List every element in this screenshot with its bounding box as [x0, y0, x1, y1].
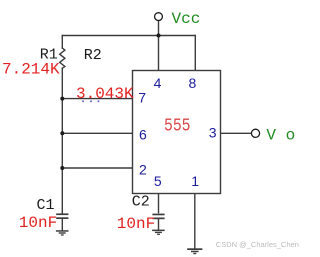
svg-text:4: 4 [154, 75, 162, 91]
ground main at pin 1 [187, 248, 202, 254]
svg-text:10nF: 10nF [19, 214, 57, 232]
svg-text:Vcc: Vcc [172, 10, 201, 28]
terminal Vo circle [251, 129, 259, 137]
wire left column above R1 [61, 36, 63, 49]
resistor R1 [60, 48, 65, 68]
svg-text:8: 8 [189, 75, 197, 91]
wire pin 3 output [221, 132, 252, 134]
svg-text:V o: V o [266, 127, 295, 145]
svg-text:CSDN @_Charles_Chen: CSDN @_Charles_Chen [216, 240, 299, 249]
svg-text:555: 555 [164, 116, 191, 136]
svg-text:6: 6 [139, 127, 147, 143]
wire Vcc stem [158, 21, 160, 71]
wire pin 6 [62, 132, 133, 134]
op-amp U1 555 body [133, 71, 221, 194]
capacitor C2 [152, 214, 164, 220]
capacitor C1 [56, 213, 68, 219]
svg-text:C2: C2 [132, 194, 150, 211]
blue dots under 3.043K [82, 100, 100, 102]
node junction pin7 [60, 97, 64, 101]
svg-text:3.043K: 3.043K [76, 85, 134, 103]
wire top rail left [62, 35, 158, 37]
svg-text:3: 3 [209, 124, 217, 140]
wire top rail right [159, 35, 196, 37]
wire pin 1 drop [194, 194, 196, 249]
ground under C1 [56, 230, 69, 235]
svg-text:R2: R2 [84, 47, 102, 64]
wire C1 lower stub [61, 219, 63, 231]
ground under C2 [152, 230, 165, 235]
node junction pin6 [60, 131, 64, 135]
wire pin 2 [62, 167, 133, 169]
node junction pin2 [60, 166, 64, 170]
svg-text:5: 5 [154, 173, 162, 189]
svg-text:2: 2 [139, 161, 147, 177]
wire C2 lower stub [158, 219, 160, 230]
svg-text:10nF: 10nF [117, 215, 155, 233]
svg-text:7: 7 [138, 89, 146, 105]
svg-text:1: 1 [191, 173, 199, 189]
wire pin 8 drop [194, 36, 196, 71]
svg-text:7.214K: 7.214K [2, 61, 60, 79]
wire pin 7 [62, 98, 133, 100]
terminal Vcc circle [155, 13, 163, 21]
svg-text:C1: C1 [37, 197, 55, 214]
node junction Vcc rail [157, 34, 161, 38]
wire left column below R1 [61, 68, 63, 213]
wire pin 5 drop [158, 194, 160, 213]
